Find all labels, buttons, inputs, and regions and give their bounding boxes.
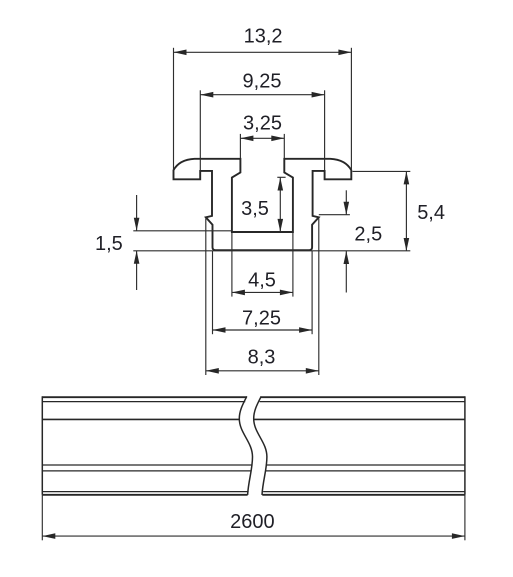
svg-text:13,2: 13,2 — [244, 25, 283, 47]
svg-text:8,3: 8,3 — [248, 346, 276, 368]
svg-text:9,25: 9,25 — [243, 70, 282, 92]
svg-text:2600: 2600 — [230, 511, 275, 533]
svg-text:4,5: 4,5 — [248, 269, 276, 291]
svg-text:1,5: 1,5 — [95, 233, 123, 255]
svg-text:3,5: 3,5 — [241, 198, 269, 220]
svg-text:2,5: 2,5 — [354, 224, 382, 246]
svg-text:5,4: 5,4 — [417, 202, 445, 224]
svg-text:3,25: 3,25 — [243, 113, 282, 135]
svg-text:7,25: 7,25 — [242, 308, 281, 330]
